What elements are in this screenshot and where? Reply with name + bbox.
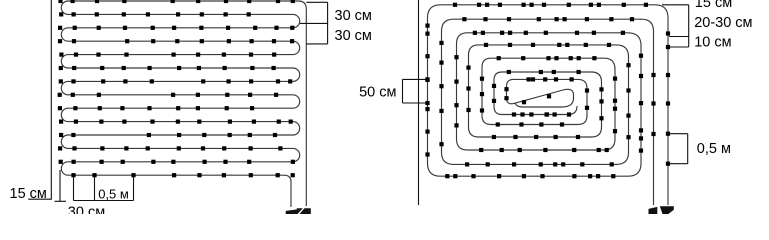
svg-text:20-30 см: 20-30 см <box>694 15 752 31</box>
svg-text:30 см: 30 см <box>68 205 105 215</box>
svg-text:30 см: 30 см <box>335 8 372 24</box>
svg-text:50 см: 50 см <box>359 84 396 100</box>
svg-text:15 см: 15 см <box>10 186 47 202</box>
svg-text:0,5 м: 0,5 м <box>697 141 731 157</box>
svg-text:15 см: 15 см <box>695 0 732 11</box>
svg-text:10 см: 10 см <box>694 34 731 50</box>
svg-text:0,5 м: 0,5 м <box>98 186 129 201</box>
svg-text:30 см: 30 см <box>335 28 372 44</box>
